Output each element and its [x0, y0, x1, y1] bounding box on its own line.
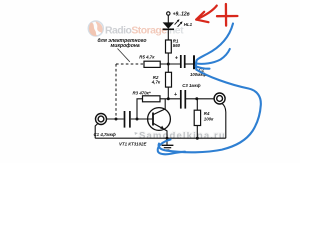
watermark Samodelkina.ru	[135, 130, 226, 141]
LED HL1	[163, 19, 193, 29]
wire input terminal down to ground rail	[95, 123, 98, 138]
wire R3 left down to base	[137, 99, 143, 119]
capacitor C2	[175, 55, 207, 77]
svg-text:R5 4,7к: R5 4,7к	[139, 55, 155, 60]
node R1/rail	[167, 63, 170, 66]
wire R1 to supply rail node	[167, 53, 169, 64]
resistor R2	[151, 72, 172, 87]
output terminal	[214, 93, 225, 104]
svg-text:560: 560	[173, 43, 181, 48]
svg-text:+: +	[175, 55, 178, 61]
wire R2 bottom to collector node	[167, 87, 169, 99]
capacitor C1	[94, 111, 130, 137]
wire C3 to output terminal	[186, 98, 214, 100]
red annotation arrow	[196, 6, 217, 23]
dashed mic connection box	[116, 64, 144, 117]
wire R5 to node to C2	[160, 63, 180, 65]
ground rail	[95, 137, 226, 139]
svg-text:+: +	[174, 92, 177, 98]
note text: dlya elektretnogo mikrofona	[98, 38, 147, 49]
resistor R1	[166, 39, 181, 53]
wire C1 to base	[131, 118, 153, 120]
svg-text:VT1 КТ3102Е: VT1 КТ3102Е	[119, 141, 147, 146]
svg-text:4,7к: 4,7к	[151, 80, 161, 85]
watermark RadioStorage.net logo	[88, 21, 184, 36]
svg-text:+9..12в: +9..12в	[173, 12, 190, 18]
node mic/input	[115, 118, 118, 121]
node base/R3	[136, 118, 139, 121]
node collector	[167, 97, 170, 100]
svg-text:Samodelkina.ru: Samodelkina.ru	[139, 130, 226, 141]
svg-text:100к: 100к	[204, 116, 214, 121]
output tap bar	[193, 55, 195, 69]
wire input to C1	[106, 118, 123, 120]
svg-text:HL1: HL1	[184, 22, 193, 27]
ground symbol	[162, 138, 174, 150]
node emitter/rail	[166, 137, 169, 140]
wire C2 to output tap bar	[186, 63, 194, 65]
resistor R5	[139, 55, 160, 68]
capacitor C3	[174, 83, 201, 108]
supply terminal +9..12V	[167, 12, 190, 18]
node R4/rail	[196, 137, 199, 140]
node R4 top	[195, 97, 198, 100]
red annotation plus	[217, 4, 237, 26]
svg-text:RadioStorage.net: RadioStorage.net	[105, 25, 184, 36]
resistor R4	[194, 110, 214, 125]
transistor VT1	[119, 99, 170, 147]
wire terminal to LED	[167, 15, 169, 22]
wire R4 stubs	[196, 99, 198, 110]
wire node to R2 top	[167, 64, 169, 72]
svg-text:C3 1мкф: C3 1мкф	[182, 83, 200, 88]
svg-text:C1 4,7мкф: C1 4,7мкф	[94, 132, 116, 137]
input terminal	[96, 114, 107, 125]
svg-text:R4: R4	[204, 111, 210, 116]
wire LED to R1	[167, 30, 169, 40]
wire rail up to output terminal	[222, 103, 226, 138]
blue annotation scribble	[158, 24, 261, 155]
pointer line from note to mic box	[118, 49, 130, 62]
svg-text:R3 470к*: R3 470к*	[133, 91, 151, 96]
svg-text:микрофона: микрофона	[111, 42, 140, 49]
wire R3 right to collector node	[160, 98, 180, 100]
resistor R3	[133, 91, 161, 102]
